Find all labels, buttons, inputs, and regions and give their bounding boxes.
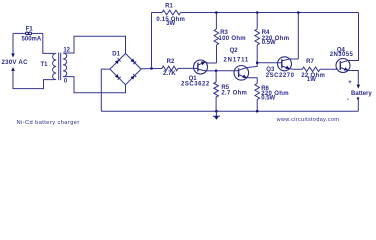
wire bottom rail	[101, 110, 358, 112]
svg-text:Q2: Q2	[230, 48, 239, 54]
wire to Q3 base	[257, 62, 282, 64]
wire to Q2 base	[216, 70, 239, 72]
resistor R1	[162, 10, 181, 15]
wire right rail	[349, 13, 359, 61]
resistor R7	[302, 67, 320, 72]
svg-text:2SC3622: 2SC3622	[181, 82, 210, 88]
node R3 rail	[215, 11, 218, 14]
wire R3 bottom	[216, 45, 218, 63]
wire battery minus stub	[357, 98, 359, 111]
diode D1c	[115, 74, 121, 80]
resistor R6	[255, 84, 260, 100]
node Q2 base	[215, 69, 218, 72]
transistor Q3 2SC2270	[278, 57, 292, 71]
svg-text:100 Ohm: 100 Ohm	[219, 36, 246, 42]
wire AC top lead	[12, 33, 14, 54]
wire R4 bottom	[256, 45, 258, 63]
resistor R3	[214, 29, 219, 45]
diode D1b	[130, 58, 136, 64]
node junction R1/R2	[150, 67, 153, 70]
wire top rail left	[152, 12, 163, 14]
svg-text:R7: R7	[306, 59, 314, 65]
transformer T1 secondary coil	[63, 53, 67, 77]
wire Q3 collector to rail	[297, 13, 299, 60]
svg-text:Battery: Battery	[351, 91, 372, 97]
resistor R5	[214, 82, 219, 97]
svg-text:500mA: 500mA	[22, 37, 42, 43]
wire bridge positive	[141, 68, 162, 70]
wire R2 to Q1 base	[178, 67, 198, 69]
svg-text:Ni-Cd battery charger: Ni-Cd battery charger	[17, 120, 80, 126]
node R6 rail	[256, 110, 259, 113]
wire R7 to Q4 base	[320, 68, 338, 70]
wire junction to R1	[151, 13, 153, 69]
arrow battery plus	[357, 85, 361, 89]
svg-text:230V AC: 230V AC	[1, 59, 28, 66]
resistor R2	[162, 66, 178, 71]
bridge rectifier D1 diamond	[110, 54, 141, 85]
arrow AC bottom	[11, 67, 15, 71]
svg-text:D1: D1	[112, 51, 120, 57]
svg-text:+: +	[348, 79, 352, 86]
svg-text:T1: T1	[40, 62, 48, 68]
wire R3 top	[215, 13, 217, 30]
svg-text:12: 12	[63, 47, 70, 53]
node R5 rail	[215, 110, 218, 113]
svg-text:1W: 1W	[307, 77, 316, 83]
ground	[215, 111, 217, 119]
wire T1 secondary bottom to bridge	[63, 77, 125, 93]
wire R4 top	[256, 13, 258, 30]
arrow AC top	[11, 54, 15, 58]
svg-text:2.7 Ohm: 2.7 Ohm	[221, 91, 247, 97]
svg-text:2SC2270: 2SC2270	[266, 73, 295, 79]
svg-text:2N1711: 2N1711	[224, 58, 250, 64]
wire top rail	[181, 12, 359, 14]
svg-text:0: 0	[64, 79, 68, 85]
fuse F1	[13, 32, 26, 34]
diode D1d	[130, 74, 136, 80]
wire R5 to rail	[215, 97, 217, 111]
svg-text:R1: R1	[165, 4, 173, 10]
transformer T1 primary coil	[53, 53, 57, 79]
transformer T1 core	[58, 53, 60, 81]
node Q3 base	[256, 61, 259, 64]
svg-text:R2: R2	[167, 59, 175, 65]
wire AC bottom lead	[13, 70, 55, 88]
transistor Q2 2N1711	[234, 66, 249, 81]
battery minus terminal	[357, 97, 359, 99]
svg-text:www.circuitstoday.com: www.circuitstoday.com	[276, 117, 340, 123]
diode D1a	[115, 58, 121, 64]
wire fuse to T1 primary	[43, 33, 55, 53]
wire T1 secondary top to bridge	[63, 36, 125, 53]
svg-text:2.7K: 2.7K	[163, 71, 176, 77]
svg-text:-: -	[347, 96, 349, 103]
wire node to R5	[215, 71, 217, 82]
transistor Q4 2N3055	[336, 59, 350, 73]
node R4 rail	[256, 11, 259, 14]
svg-text:F1: F1	[26, 27, 34, 33]
transistor Q1 2SC3622	[194, 60, 208, 74]
resistor R4	[255, 29, 260, 45]
svg-text:3W: 3W	[166, 21, 175, 27]
wire R6 bottom	[256, 100, 258, 112]
svg-text:2N3055: 2N3055	[330, 52, 354, 58]
svg-text:0.5W: 0.5W	[262, 40, 276, 46]
svg-text:0.5W: 0.5W	[261, 96, 275, 102]
wire bridge negative	[101, 69, 110, 111]
node Q3 collector rail	[297, 11, 300, 14]
